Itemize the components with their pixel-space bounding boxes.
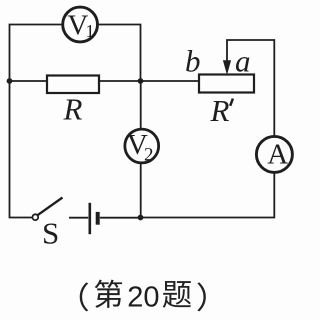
svg-text:1: 1 [86,21,95,41]
svg-text:b: b [185,43,201,78]
svg-text:R: R [210,93,230,128]
svg-text:2: 2 [144,145,154,166]
svg-text:A: A [267,139,288,171]
svg-text:a: a [235,43,251,78]
svg-text:S: S [42,216,59,251]
svg-text:R: R [63,91,83,126]
svg-text:20: 20 [127,282,159,314]
